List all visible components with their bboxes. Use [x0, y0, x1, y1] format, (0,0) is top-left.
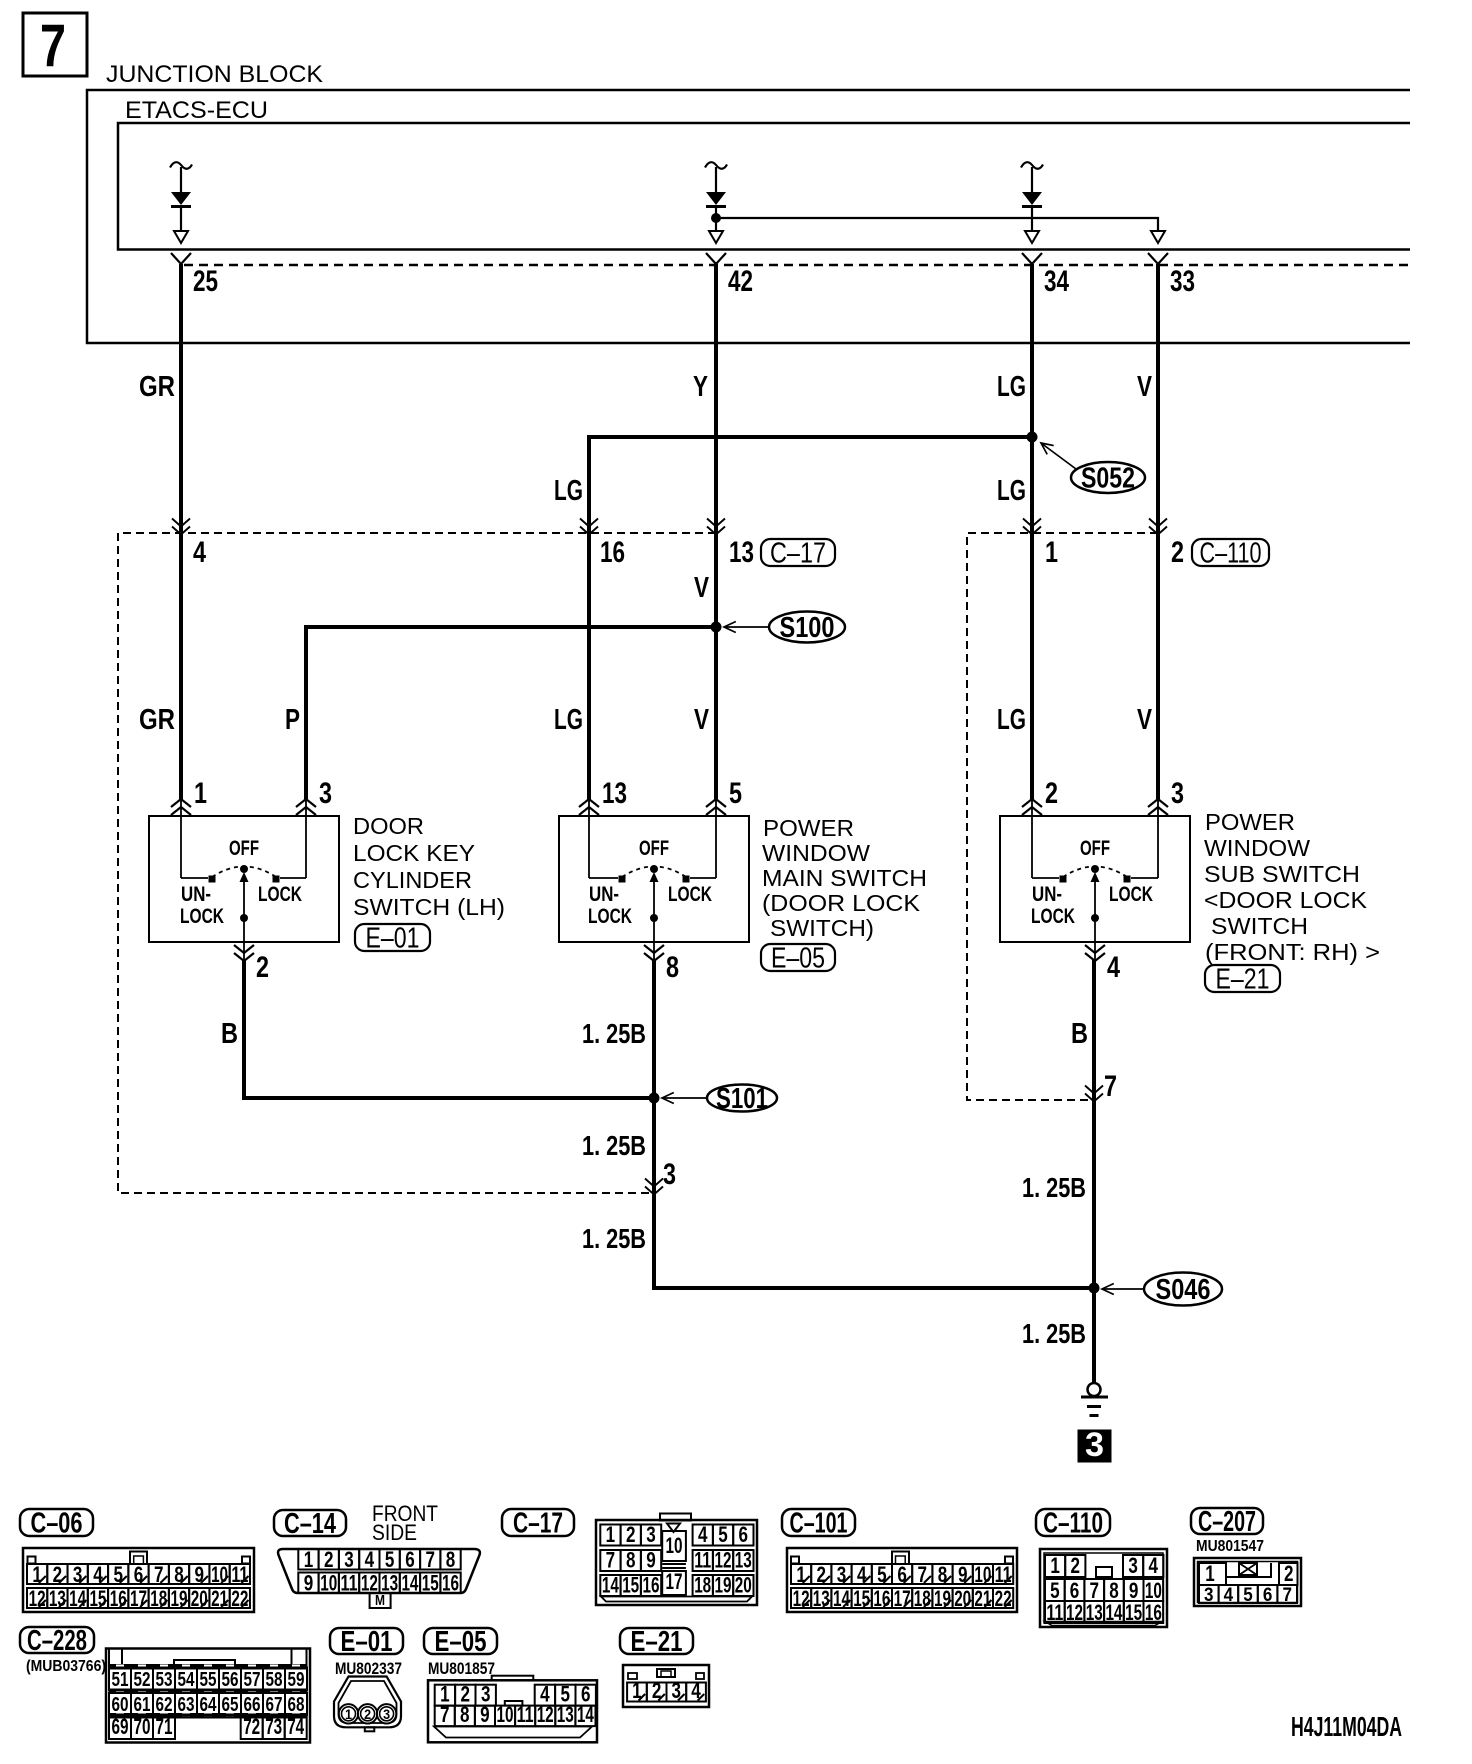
svg-text:C–110: C–110: [1200, 538, 1262, 570]
svg-text:13: 13: [602, 777, 627, 810]
svg-text:GR: GR: [139, 704, 175, 736]
svg-text:V: V: [1137, 371, 1153, 403]
svg-text:18: 18: [150, 1586, 167, 1611]
connector C-101 label: [782, 1509, 855, 1536]
svg-text:15: 15: [89, 1586, 106, 1611]
power window sub switch pin 3 male terminal: [1148, 799, 1168, 807]
svg-text:5: 5: [385, 1547, 395, 1572]
power window main switch pin 5 male terminal: [706, 799, 726, 807]
connector crossing pin 16: [580, 527, 598, 535]
svg-text:C–17: C–17: [770, 538, 826, 570]
svg-text:11: 11: [995, 1562, 1012, 1587]
svg-text:SIDE: SIDE: [372, 1520, 417, 1545]
ground ref box 3: [1078, 1430, 1111, 1462]
svg-text:14: 14: [577, 1702, 595, 1727]
svg-text:73: 73: [265, 1714, 282, 1739]
svg-text:58: 58: [266, 1669, 283, 1691]
svg-text:5: 5: [718, 1522, 728, 1547]
door lock key cylinder switch movable contact (dashed arc): [212, 867, 276, 878]
svg-text:8: 8: [174, 1562, 184, 1587]
svg-text:7: 7: [154, 1562, 164, 1587]
svg-text:16: 16: [600, 536, 625, 569]
svg-text:WINDOW: WINDOW: [762, 840, 870, 866]
svg-text:72: 72: [243, 1714, 260, 1739]
svg-text:1: 1: [304, 1547, 314, 1572]
female terminal pin 34: [1022, 253, 1042, 264]
power window main switch pin 13 male terminal: [579, 799, 599, 807]
svg-text:56: 56: [222, 1669, 239, 1691]
junction dot S046: [1089, 1283, 1100, 1294]
svg-text:22: 22: [995, 1586, 1012, 1611]
connector E-01 label: [330, 1628, 403, 1654]
svg-text:16: 16: [873, 1586, 890, 1611]
svg-text:8: 8: [626, 1548, 636, 1573]
svg-text:B: B: [221, 1018, 238, 1050]
svg-text:1: 1: [345, 1706, 352, 1722]
svg-text:1. 25B: 1. 25B: [582, 1130, 646, 1161]
svg-text:UN-: UN-: [1032, 883, 1062, 906]
svg-text:3: 3: [1171, 777, 1184, 810]
svg-text:10: 10: [320, 1571, 337, 1596]
svg-text:6: 6: [405, 1547, 415, 1572]
svg-text:3: 3: [646, 1522, 656, 1547]
page number box 7: [23, 13, 87, 76]
svg-text:V: V: [1137, 704, 1153, 736]
svg-text:MU801857: MU801857: [428, 1659, 495, 1678]
svg-text:8: 8: [938, 1562, 948, 1587]
door lock key cylinder switch actuator arrow: [240, 872, 249, 882]
female terminal pin 25: [171, 253, 191, 264]
wire GR pin25 down to switch1 pin1: [179, 264, 183, 799]
svg-text:C–110: C–110: [1043, 1508, 1103, 1540]
connector C-06 label: [20, 1509, 93, 1536]
svg-text:S046: S046: [1156, 1274, 1211, 1306]
svg-text:5: 5: [1243, 1585, 1253, 1606]
svg-text:20: 20: [191, 1586, 208, 1611]
svg-text:7: 7: [918, 1562, 928, 1587]
svg-text:E–05: E–05: [435, 1626, 487, 1658]
svg-text:LG: LG: [997, 475, 1026, 507]
svg-text:71: 71: [156, 1714, 173, 1739]
svg-text:4: 4: [857, 1562, 867, 1587]
svg-text:1: 1: [32, 1562, 42, 1587]
connector C-207 pinout: [1194, 1558, 1301, 1606]
dashed harness box right: [967, 533, 1158, 1100]
svg-text:64: 64: [200, 1694, 218, 1716]
svg-text:LG: LG: [997, 704, 1026, 736]
svg-text:3: 3: [663, 1158, 676, 1191]
svg-text:18: 18: [694, 1573, 711, 1598]
svg-text:MAIN SWITCH: MAIN SWITCH: [762, 865, 927, 891]
svg-text:LOCK: LOCK: [1109, 883, 1153, 906]
ground symbol: [1088, 1383, 1101, 1396]
svg-text:13: 13: [813, 1586, 830, 1611]
svg-text:6: 6: [897, 1562, 907, 1587]
junction dot S052: [1027, 432, 1038, 443]
svg-text:6: 6: [739, 1522, 749, 1547]
svg-text:JUNCTION BLOCK: JUNCTION BLOCK: [106, 61, 323, 88]
svg-text:POWER: POWER: [763, 815, 854, 841]
svg-text:17: 17: [894, 1586, 911, 1611]
female terminal pin 42: [706, 253, 726, 264]
svg-text:E–21: E–21: [1216, 964, 1270, 996]
connector label C-17: [761, 539, 835, 566]
svg-text:LG: LG: [554, 475, 583, 507]
svg-text:POWER: POWER: [1205, 809, 1295, 835]
door lock key cylinder switch pin 3 male terminal: [296, 799, 316, 807]
svg-text:1. 25B: 1. 25B: [1022, 1172, 1086, 1203]
svg-text:9: 9: [958, 1562, 968, 1587]
svg-text:B: B: [1071, 1018, 1088, 1050]
svg-text:2: 2: [53, 1562, 63, 1587]
svg-text:(DOOR LOCK: (DOOR LOCK: [762, 890, 921, 916]
svg-text:12: 12: [537, 1702, 554, 1727]
svg-text:6: 6: [1263, 1585, 1273, 1606]
svg-text:2: 2: [1171, 536, 1184, 569]
svg-text:LOCK: LOCK: [180, 905, 224, 928]
svg-text:14: 14: [401, 1571, 419, 1596]
svg-text:63: 63: [178, 1694, 195, 1716]
power window sub switch box: [1000, 816, 1190, 942]
svg-text:GR: GR: [139, 371, 175, 403]
wire P horizontal from S100 junction: [306, 625, 718, 629]
svg-text:10: 10: [497, 1702, 514, 1727]
wire Y/V pin42 down to switch2 pin5: [714, 264, 718, 799]
svg-text:3: 3: [73, 1562, 83, 1587]
power window sub switch pivot dot: [1091, 865, 1099, 873]
connector label C-110: [1192, 539, 1269, 566]
svg-text:8: 8: [460, 1702, 470, 1727]
svg-text:19: 19: [171, 1586, 188, 1611]
svg-text:V: V: [694, 704, 710, 736]
svg-text:SWITCH: SWITCH: [1211, 913, 1308, 939]
svg-text:2: 2: [324, 1547, 334, 1572]
svg-text:68: 68: [288, 1694, 305, 1716]
svg-text:2: 2: [256, 951, 269, 984]
svg-text:DOOR: DOOR: [353, 813, 424, 839]
svg-text:SWITCH (LH): SWITCH (LH): [353, 894, 505, 920]
svg-text:34: 34: [1044, 265, 1069, 298]
S101 splice label: [662, 1097, 707, 1099]
svg-text:14: 14: [833, 1586, 851, 1611]
connector crossing pin 13: [707, 527, 725, 535]
svg-text:15: 15: [422, 1571, 439, 1596]
diode at x=716 (with junction): [705, 162, 727, 169]
connector C-14 pinout: [278, 1549, 480, 1593]
connector C-101 pinout: [787, 1548, 1017, 1612]
svg-text:51: 51: [112, 1669, 129, 1691]
svg-text:2: 2: [1071, 1553, 1081, 1578]
svg-text:1: 1: [1205, 1561, 1215, 1586]
connector C-17 pinout label: [502, 1509, 574, 1536]
svg-text:9: 9: [480, 1702, 490, 1727]
svg-text:3: 3: [1085, 1426, 1104, 1464]
svg-text:4: 4: [365, 1547, 375, 1572]
svg-text:OFF: OFF: [639, 837, 669, 860]
svg-text:1: 1: [606, 1522, 616, 1547]
svg-text:15: 15: [622, 1573, 639, 1598]
svg-text:52: 52: [134, 1669, 151, 1691]
svg-text:69: 69: [112, 1714, 129, 1739]
svg-text:21: 21: [211, 1586, 228, 1611]
svg-text:10: 10: [211, 1562, 228, 1587]
connector ref E-01: [355, 924, 430, 951]
connector crossing pin 2: [1149, 527, 1167, 535]
svg-text:12: 12: [715, 1548, 732, 1573]
connector ref E-05: [761, 944, 835, 971]
svg-text:11: 11: [341, 1571, 358, 1596]
svg-text:1: 1: [1050, 1553, 1060, 1578]
svg-text:CYLINDER: CYLINDER: [353, 867, 472, 893]
svg-text:4: 4: [698, 1522, 708, 1547]
svg-text:1. 25B: 1. 25B: [582, 1018, 646, 1049]
svg-text:1: 1: [1045, 536, 1058, 569]
svg-text:4: 4: [1224, 1585, 1234, 1606]
svg-text:12: 12: [793, 1586, 810, 1611]
svg-text:LOCK: LOCK: [588, 905, 632, 928]
connector C-110 pinout: [1040, 1549, 1167, 1627]
wire B from switch1 pin2: [244, 959, 656, 1098]
power window main switch box: [559, 816, 749, 942]
svg-text:2: 2: [626, 1522, 636, 1547]
svg-text:16: 16: [442, 1571, 459, 1596]
svg-text:2: 2: [1284, 1561, 1294, 1586]
svg-text:67: 67: [266, 1694, 283, 1716]
svg-text:7: 7: [440, 1702, 450, 1727]
svg-text:3: 3: [383, 1706, 390, 1722]
wire LG pin34 down to switch3 pin2: [1030, 264, 1034, 799]
svg-text:21: 21: [974, 1586, 991, 1611]
svg-text:19: 19: [715, 1573, 732, 1598]
door lock key cylinder switch pivot dot: [240, 865, 248, 873]
wire 1.25B from switch2 pin8 down to S046 run: [654, 959, 1096, 1288]
svg-text:60: 60: [112, 1694, 129, 1716]
door lock key cylinder switch pin 2 exit terminal: [243, 942, 245, 960]
svg-text:5: 5: [729, 777, 742, 810]
svg-text:13: 13: [729, 536, 754, 569]
svg-text:1. 25B: 1. 25B: [1022, 1318, 1086, 1349]
diode at x=1032: [1021, 162, 1043, 169]
svg-text:18: 18: [914, 1586, 931, 1611]
svg-text:C–101: C–101: [790, 1508, 848, 1540]
svg-text:OFF: OFF: [1080, 837, 1110, 860]
wire 1.25B from switch3 pin4 down to ground: [1092, 959, 1096, 1383]
power window sub switch actuator arrow: [1091, 872, 1100, 882]
svg-text:22: 22: [231, 1586, 248, 1611]
svg-text:17: 17: [130, 1586, 147, 1611]
svg-text:54: 54: [178, 1669, 196, 1691]
door lock key cylinder switch pin 1 male terminal: [171, 799, 191, 807]
svg-text:2: 2: [817, 1562, 827, 1587]
svg-text:13: 13: [49, 1586, 66, 1611]
svg-text:53: 53: [156, 1669, 173, 1691]
ETACS-ECU connector dashed line: [184, 264, 1410, 267]
svg-text:25: 25: [193, 265, 218, 298]
svg-text:P: P: [285, 704, 300, 736]
connector E-05 pinout: [428, 1680, 597, 1742]
power window main switch actuator arrow: [650, 872, 659, 882]
power window sub switch common junction dot: [1091, 914, 1099, 922]
svg-text:13: 13: [557, 1702, 574, 1727]
svg-text:62: 62: [156, 1694, 173, 1716]
svg-text:42: 42: [728, 265, 753, 298]
svg-text:(MUB03766): (MUB03766): [26, 1658, 106, 1675]
power window main switch common junction dot: [650, 914, 658, 922]
svg-text:C–17: C–17: [513, 1508, 563, 1540]
svg-text:WINDOW: WINDOW: [1204, 835, 1310, 861]
svg-text:16: 16: [643, 1573, 660, 1598]
power window main switch internal wiring: [588, 799, 590, 878]
connector C-207 label: [1191, 1508, 1263, 1534]
svg-text:1: 1: [194, 777, 207, 810]
S052 splice label: [1041, 443, 1076, 469]
power window sub switch pin 2 male terminal: [1022, 799, 1042, 807]
svg-text:11: 11: [517, 1702, 534, 1727]
svg-text:16: 16: [110, 1586, 127, 1611]
svg-text:5: 5: [113, 1562, 123, 1587]
connector E-05 label: [424, 1628, 497, 1654]
svg-text:1: 1: [796, 1562, 806, 1587]
svg-text:SUB SWITCH: SUB SWITCH: [1204, 861, 1360, 887]
connector E-21 label: [620, 1628, 693, 1654]
svg-text:LOCK KEY: LOCK KEY: [353, 840, 475, 866]
door lock key cylinder switch internal wiring: [180, 799, 182, 878]
svg-text:57: 57: [244, 1669, 261, 1691]
svg-text:4: 4: [1107, 951, 1120, 984]
svg-text:7: 7: [1104, 1070, 1117, 1103]
svg-text:11: 11: [694, 1548, 711, 1573]
wire LG horizontal from S052 junction: [589, 435, 1034, 439]
svg-text:<DOOR LOCK: <DOOR LOCK: [1204, 887, 1368, 913]
connector crossing pin 1: [1023, 527, 1041, 535]
svg-text:C–207: C–207: [1198, 1506, 1256, 1538]
svg-text:61: 61: [134, 1694, 151, 1716]
svg-text:C–14: C–14: [284, 1508, 336, 1540]
S046 splice label: [1102, 1288, 1144, 1290]
power window main switch movable contact (dashed arc): [622, 867, 686, 878]
wire LG down to switch2 pin13: [587, 435, 591, 799]
svg-text:14: 14: [602, 1573, 620, 1598]
svg-text:M: M: [375, 1592, 385, 1609]
svg-text:66: 66: [244, 1694, 261, 1716]
connector E-21 pinout: [623, 1665, 709, 1707]
diode at x=181: [170, 162, 192, 169]
svg-text:E–01: E–01: [366, 923, 420, 955]
svg-text:6: 6: [134, 1562, 144, 1587]
svg-text:SWITCH): SWITCH): [770, 915, 874, 941]
connector crossing pin 4: [172, 527, 190, 535]
svg-text:MU801547: MU801547: [1196, 1538, 1264, 1555]
svg-text:LOCK: LOCK: [1031, 905, 1075, 928]
svg-text:E–05: E–05: [771, 943, 825, 975]
svg-text:20: 20: [735, 1573, 752, 1598]
svg-text:3: 3: [344, 1547, 354, 1572]
svg-text:1. 25B: 1. 25B: [582, 1223, 646, 1254]
svg-text:3: 3: [319, 777, 332, 810]
svg-text:5: 5: [877, 1562, 887, 1587]
svg-text:E–21: E–21: [631, 1626, 683, 1658]
connector C-17 pinout: [596, 1520, 757, 1605]
svg-text:V: V: [694, 572, 710, 604]
junction block box (open right): [87, 90, 1410, 343]
svg-text:70: 70: [134, 1714, 151, 1739]
connector C-14 label: [274, 1510, 346, 1536]
svg-text:8: 8: [446, 1547, 456, 1572]
svg-text:(FRONT: RH) >: (FRONT: RH) >: [1205, 939, 1380, 965]
female terminal pin 33: [1148, 253, 1168, 264]
svg-text:11: 11: [231, 1562, 248, 1587]
svg-text:Y: Y: [693, 371, 708, 403]
power window sub switch movable contact (dashed arc): [1063, 867, 1127, 878]
svg-text:13: 13: [735, 1548, 752, 1573]
svg-text:17: 17: [666, 1569, 683, 1594]
svg-text:7: 7: [606, 1548, 616, 1573]
wire P down to switch1 pin3: [304, 625, 308, 799]
svg-text:14: 14: [69, 1586, 87, 1611]
svg-text:4: 4: [93, 1562, 103, 1587]
svg-text:LOCK: LOCK: [668, 883, 712, 906]
power window main switch pivot dot: [650, 865, 658, 873]
junction dot S101: [649, 1093, 660, 1104]
svg-text:9: 9: [646, 1548, 656, 1573]
svg-text:15: 15: [853, 1586, 870, 1611]
svg-text:9: 9: [304, 1571, 314, 1596]
svg-text:7: 7: [40, 12, 66, 79]
svg-text:S101: S101: [716, 1083, 768, 1115]
svg-text:8: 8: [666, 951, 679, 984]
door lock key cylinder switch box: [149, 816, 339, 942]
svg-text:UN-: UN-: [589, 883, 619, 906]
svg-text:H4J11M04DA: H4J11M04DA: [1291, 1711, 1402, 1742]
dashed harness box left: [118, 533, 716, 1193]
connector ref E-21: [1205, 965, 1280, 992]
svg-text:33: 33: [1170, 265, 1195, 298]
svg-text:E–01: E–01: [341, 1626, 393, 1658]
junction dot S100: [711, 622, 722, 633]
power window sub switch pin 4 exit terminal: [1094, 942, 1096, 960]
svg-text:4: 4: [193, 536, 206, 569]
svg-text:LG: LG: [554, 704, 583, 736]
svg-text:10: 10: [666, 1533, 683, 1558]
S100 splice label: [724, 626, 769, 628]
svg-text:C–06: C–06: [31, 1508, 83, 1540]
svg-text:7: 7: [1282, 1585, 1292, 1606]
link wire from diode D2 junction to pin 33 arrow: [716, 218, 1158, 230]
ETACS-ECU box (open right): [118, 123, 1410, 250]
connector C-228 label: [20, 1627, 94, 1653]
svg-text:3: 3: [1128, 1553, 1138, 1578]
door lock key cylinder switch common junction dot: [240, 914, 248, 922]
svg-text:3: 3: [837, 1562, 847, 1587]
svg-text:LOCK: LOCK: [258, 883, 302, 906]
svg-text:OFF: OFF: [229, 837, 259, 860]
svg-text:74: 74: [287, 1714, 305, 1739]
svg-text:12: 12: [29, 1586, 46, 1611]
svg-text:3: 3: [1204, 1585, 1214, 1606]
connector E-01 pinout: [334, 1677, 401, 1728]
connector C-110 pinout label: [1036, 1509, 1110, 1536]
svg-text:59: 59: [288, 1669, 305, 1691]
wire V pin33 down to switch3 pin3: [1156, 264, 1160, 799]
svg-text:2: 2: [1045, 777, 1058, 810]
power window main switch pin 8 exit terminal: [653, 942, 655, 960]
svg-text:7: 7: [426, 1547, 436, 1572]
svg-text:S052: S052: [1081, 463, 1135, 495]
svg-text:2: 2: [364, 1706, 371, 1722]
junction dot on diode D2 line: [711, 213, 721, 223]
svg-text:S100: S100: [780, 612, 835, 644]
connector C-228 pinout: [106, 1649, 310, 1743]
